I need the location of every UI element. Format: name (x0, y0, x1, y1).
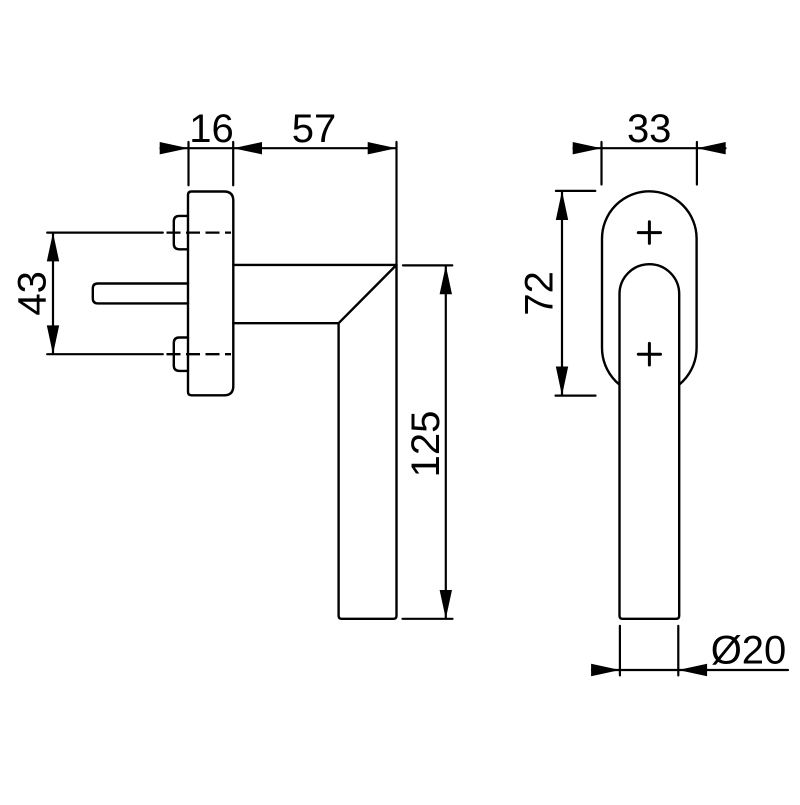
dimension line 72 (561, 191, 563, 395)
arrowhead 125 bottom (points down) (440, 590, 452, 619)
dimension line 125 (445, 266, 447, 619)
arrowhead 72 top (points up) (556, 191, 568, 220)
dimension line 16 + 57 (161, 147, 397, 149)
svg-text:72: 72 (518, 271, 562, 316)
svg-text:Ø20: Ø20 (711, 629, 787, 673)
lower screw cross mark (638, 343, 660, 365)
dimension line 33 (574, 147, 726, 149)
dimension 16: extension lines (189, 142, 234, 185)
svg-text:33: 33 (627, 107, 672, 151)
svg-text:16: 16 (189, 107, 234, 151)
svg-text:125: 125 (404, 411, 448, 478)
square spindle (93, 284, 188, 304)
oval rosette (front view) (602, 191, 697, 395)
dimension 72: extension ticks (556, 191, 596, 396)
arrowhead 57 right (points right) (368, 142, 397, 154)
dimension D20: extension lines (620, 626, 678, 676)
arrowhead 43 top (points up) (47, 233, 59, 262)
upper screw cross mark (638, 222, 660, 244)
dashed centerline upper screw (167, 231, 232, 233)
arrowhead D20 right (points left) (678, 664, 707, 676)
arrowhead 16 left (points right) (160, 142, 189, 154)
arrowhead 33 left (points right) (573, 142, 602, 154)
dashed centerline lower screw (167, 353, 232, 355)
arrowhead 72 bottom (points down) (556, 367, 568, 396)
upper screw boss (174, 216, 188, 249)
arrowhead 33 right (points left) (697, 142, 726, 154)
handle grip (front view) (620, 264, 680, 619)
arrowhead D20 left (points right) (591, 664, 620, 676)
svg-text:57: 57 (292, 107, 337, 151)
arrowhead 43 bottom (points down) (47, 325, 59, 354)
lower screw boss (174, 338, 188, 371)
dimension 125: extension lines (403, 265, 453, 618)
arrowhead 125 top (points up) (440, 265, 452, 294)
dimension line 43 (52, 233, 54, 354)
rosette plate (side view) (188, 192, 233, 396)
dimension 43: extension lines (47, 233, 163, 355)
svg-text:43: 43 (11, 271, 55, 316)
dimension 57: extension line down to handle corner (395, 142, 397, 265)
arrowhead 16/57 middle (points left) (233, 142, 262, 154)
handle lever (side view) (233, 265, 396, 619)
dimension line D20 (592, 669, 788, 671)
dimension 33: extension lines (602, 142, 697, 185)
